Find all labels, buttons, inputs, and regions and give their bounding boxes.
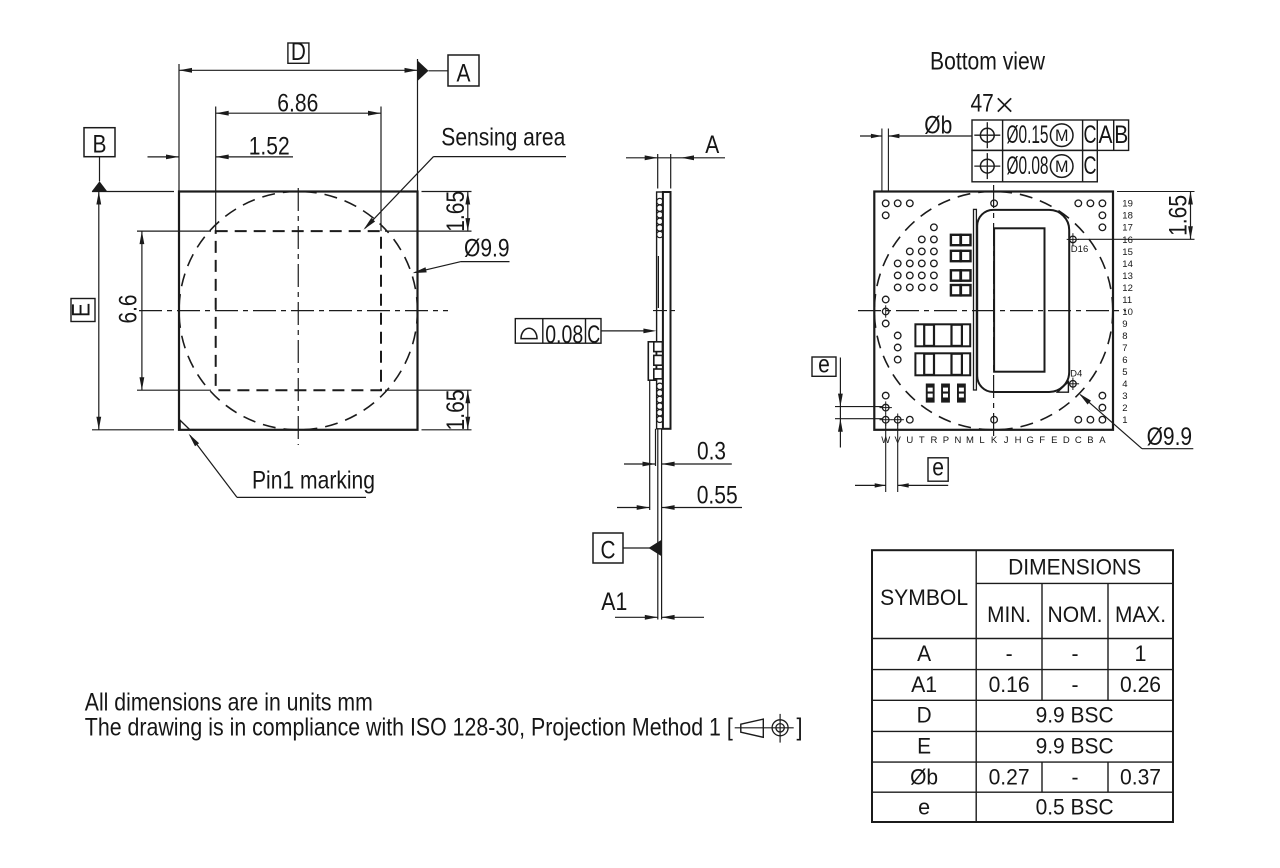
- svg-text:15: 15: [1122, 247, 1133, 258]
- svg-text:0.26: 0.26: [1120, 672, 1161, 697]
- svg-text:SYMBOL: SYMBOL: [880, 585, 968, 610]
- svg-text:1: 1: [1122, 415, 1127, 426]
- svg-text:E: E: [68, 303, 96, 317]
- svg-text:12: 12: [1122, 283, 1133, 294]
- svg-text:Ø9.9: Ø9.9: [464, 235, 510, 263]
- svg-text:C: C: [601, 537, 616, 565]
- svg-text:M: M: [1055, 157, 1069, 176]
- svg-text:16: 16: [1122, 235, 1133, 246]
- svg-text:The drawing is in compliance w: The drawing is in compliance with ISO 12…: [85, 713, 733, 741]
- svg-text:A1: A1: [601, 588, 627, 616]
- svg-text:4: 4: [1122, 379, 1127, 390]
- svg-text:2: 2: [1122, 403, 1127, 414]
- svg-text:9.9 BSC: 9.9 BSC: [1036, 734, 1114, 759]
- svg-text:E: E: [1051, 435, 1057, 446]
- svg-text:A: A: [457, 60, 471, 88]
- svg-text:0.3: 0.3: [697, 438, 726, 466]
- svg-text:P: P: [943, 435, 949, 446]
- svg-text:0.5 BSC: 0.5 BSC: [1036, 795, 1114, 820]
- svg-text:A1: A1: [911, 672, 937, 697]
- svg-text:e: e: [932, 453, 944, 481]
- svg-text:-: -: [1072, 672, 1079, 697]
- svg-text:11: 11: [1122, 295, 1132, 306]
- svg-text:]: ]: [797, 713, 803, 741]
- svg-text:14: 14: [1122, 259, 1133, 270]
- svg-text:MAX.: MAX.: [1115, 602, 1166, 627]
- svg-text:8: 8: [1122, 331, 1127, 342]
- svg-text:D4: D4: [1070, 369, 1082, 380]
- svg-text:B: B: [1087, 435, 1093, 446]
- svg-text:Øb: Øb: [924, 111, 952, 139]
- svg-text:M: M: [966, 435, 974, 446]
- svg-text:18: 18: [1122, 211, 1133, 222]
- svg-text:Ø0.08: Ø0.08: [1007, 152, 1049, 180]
- svg-text:1.65: 1.65: [1164, 195, 1192, 236]
- svg-text:0.37: 0.37: [1120, 764, 1161, 789]
- svg-text:6: 6: [1122, 355, 1127, 366]
- svg-text:D16: D16: [1071, 244, 1088, 255]
- svg-text:Sensing area: Sensing area: [441, 123, 565, 151]
- svg-text:C: C: [1075, 435, 1082, 446]
- svg-text:D: D: [1063, 435, 1070, 446]
- svg-text:9.9 BSC: 9.9 BSC: [1036, 703, 1114, 728]
- svg-text:U: U: [906, 435, 913, 446]
- svg-text:13: 13: [1122, 271, 1133, 282]
- svg-text:F: F: [1039, 435, 1045, 446]
- svg-text:-: -: [1072, 641, 1079, 666]
- svg-text:6.86: 6.86: [277, 90, 318, 118]
- svg-text:C: C: [1084, 121, 1097, 149]
- svg-text:A: A: [705, 131, 719, 159]
- svg-text:Bottom view: Bottom view: [930, 48, 1046, 76]
- svg-text:DIMENSIONS: DIMENSIONS: [1008, 555, 1141, 580]
- svg-text:C: C: [587, 321, 600, 349]
- svg-text:e: e: [918, 795, 930, 820]
- svg-text:1.65: 1.65: [442, 191, 470, 232]
- svg-text:5: 5: [1122, 367, 1127, 378]
- svg-text:L: L: [979, 435, 984, 446]
- svg-text:A: A: [917, 641, 931, 666]
- svg-text:9: 9: [1122, 319, 1127, 330]
- svg-text:0.55: 0.55: [697, 481, 738, 509]
- svg-text:NOM.: NOM.: [1048, 602, 1103, 627]
- svg-text:10: 10: [1122, 307, 1133, 318]
- svg-text:6.6: 6.6: [115, 295, 143, 324]
- svg-text:R: R: [930, 435, 937, 446]
- svg-text:G: G: [1027, 435, 1034, 446]
- svg-text:1.52: 1.52: [249, 132, 290, 160]
- svg-text:A: A: [1099, 121, 1113, 149]
- svg-text:C: C: [1084, 152, 1097, 180]
- svg-text:E: E: [917, 734, 931, 759]
- svg-text:H: H: [1015, 435, 1022, 446]
- svg-text:7: 7: [1122, 343, 1127, 354]
- svg-text:0.27: 0.27: [989, 764, 1030, 789]
- svg-text:Ø9.9: Ø9.9: [1147, 423, 1193, 451]
- svg-text:A: A: [1099, 435, 1106, 446]
- svg-text:T: T: [919, 435, 925, 446]
- svg-text:3: 3: [1122, 391, 1127, 402]
- svg-text:17: 17: [1122, 223, 1133, 234]
- svg-text:D: D: [917, 703, 932, 728]
- svg-text:All dimensions are in units mm: All dimensions are in units mm: [85, 689, 373, 717]
- svg-text:1.65: 1.65: [442, 390, 470, 431]
- svg-text:D: D: [291, 38, 306, 66]
- svg-text:-: -: [1072, 764, 1079, 789]
- svg-text:1: 1: [1135, 641, 1147, 666]
- svg-text:M: M: [1055, 126, 1069, 145]
- svg-text:N: N: [954, 435, 961, 446]
- svg-text:Pin1 marking: Pin1 marking: [252, 467, 375, 495]
- svg-text:0.08: 0.08: [545, 321, 583, 349]
- svg-text:J: J: [1004, 435, 1009, 446]
- svg-text:e: e: [818, 350, 830, 378]
- svg-text:K: K: [991, 435, 998, 446]
- svg-text:B: B: [93, 131, 107, 159]
- svg-text:47: 47: [971, 90, 994, 118]
- svg-text:19: 19: [1122, 199, 1133, 210]
- svg-text:B: B: [1114, 121, 1128, 149]
- svg-text:MIN.: MIN.: [987, 602, 1031, 627]
- svg-text:Øb: Øb: [910, 764, 938, 789]
- svg-text:0.16: 0.16: [989, 672, 1030, 697]
- svg-text:Ø0.15: Ø0.15: [1007, 121, 1049, 149]
- svg-text:-: -: [1006, 641, 1013, 666]
